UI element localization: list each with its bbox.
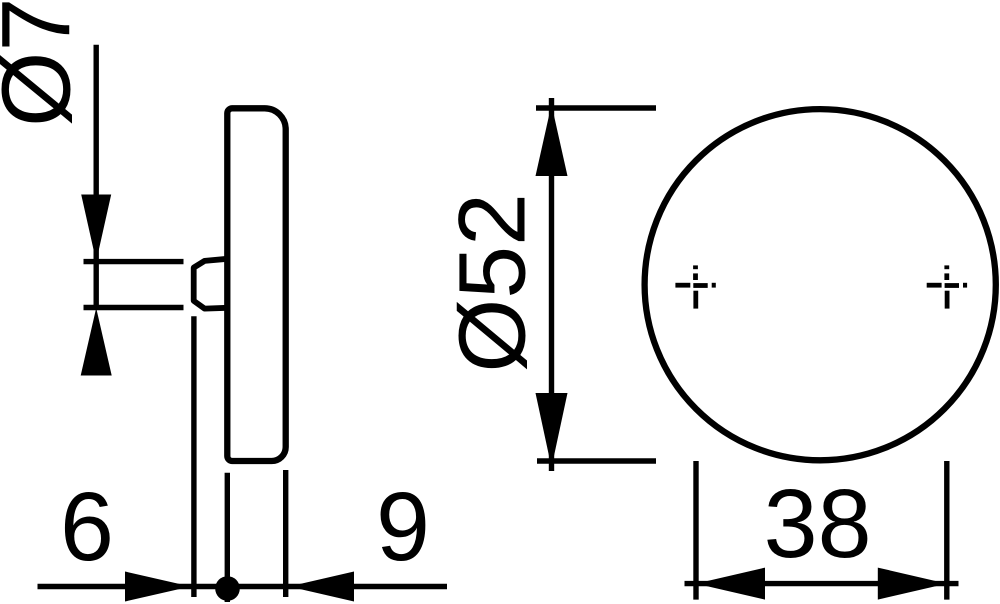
38 extension line left <box>693 461 698 600</box>
Ø7 extension line top <box>84 259 184 264</box>
dot terminator at rose left face <box>215 576 240 601</box>
38 arrowhead left (points left) <box>696 568 765 600</box>
spindle boss (neck) <box>194 259 228 309</box>
Ø7 dimension line <box>93 45 98 308</box>
38 arrowhead right (points right) <box>878 568 947 600</box>
extension line from rose left face down <box>225 473 230 602</box>
Ø7 arrowhead lower (points up) <box>81 308 112 376</box>
arrowhead pointing right at neck face <box>125 572 191 602</box>
svg-text:38: 38 <box>764 469 872 578</box>
rose side view outline <box>227 108 285 461</box>
rose front view circle <box>645 109 996 460</box>
Ø52 arrowhead upper (points up) <box>536 105 568 177</box>
centre mark right <box>927 265 967 308</box>
38 dimension line <box>685 581 959 586</box>
svg-text:9: 9 <box>376 472 430 581</box>
Ø7 arrowhead upper (points down) <box>81 195 111 262</box>
svg-text:Ø52: Ø52 <box>440 193 546 373</box>
Ø7 extension line bottom <box>84 305 184 310</box>
extension line from rose right face down <box>283 470 288 597</box>
Ø52 arrowhead lower (points down) <box>536 393 568 468</box>
centre mark left <box>675 265 715 308</box>
Ø52 dimension line <box>549 98 554 471</box>
Ø52 extension line bottom <box>537 458 656 463</box>
arrowhead pointing left at rose right face <box>289 572 354 602</box>
svg-text:6: 6 <box>60 472 114 581</box>
svg-text:Ø7: Ø7 <box>0 0 91 127</box>
38 extension line right <box>944 461 949 600</box>
Ø52 extension line top <box>536 105 656 110</box>
dimension line for 6 and 9 <box>38 584 448 589</box>
extension line from neck face down <box>191 316 196 597</box>
